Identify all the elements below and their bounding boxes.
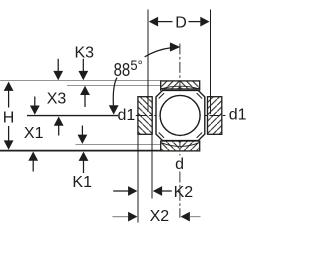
body corner tick bottom-right — [197, 133, 202, 138]
svg-text:88: 88 — [114, 59, 131, 80]
K3 arrow down — [78, 59, 88, 80]
branch axis left segment — [27, 115, 118, 117]
dimension D arrow right — [189, 17, 210, 27]
angle leader arrowhead — [109, 105, 119, 114]
angle arc arrowhead — [170, 42, 180, 51]
fitting body — [156, 90, 205, 140]
svg-text:K2: K2 — [174, 184, 194, 201]
angle arc leader — [145, 48, 171, 57]
left branch socket section — [138, 97, 152, 135]
K1 arrow up — [79, 152, 89, 173]
K2 arrow right — [113, 186, 137, 196]
bore edge stub left — [160, 89, 162, 91]
svg-text:d1: d1 — [118, 107, 136, 124]
svg-text:d1: d1 — [229, 106, 247, 123]
body corner tick top-right — [197, 93, 202, 98]
svg-text:K1: K1 — [72, 174, 92, 191]
top socket pipe section — [161, 81, 200, 89]
X1 arrow down — [30, 97, 40, 115]
svg-text:X1: X1 — [24, 125, 44, 142]
X1 arrow up — [28, 152, 38, 172]
K3 arrow up — [80, 86, 90, 107]
vertical centerline — [179, 44, 181, 218]
body corner tick top-left — [159, 93, 164, 98]
extension line D left — [147, 10, 149, 113]
extension line D right — [209, 10, 211, 115]
svg-text:H: H — [3, 110, 15, 127]
bottom plane line — [0, 150, 161, 152]
bottom socket rim reference line — [76, 143, 161, 145]
X2 arrow right — [112, 212, 137, 222]
svg-text:5°: 5° — [130, 57, 142, 73]
extension line from left socket outer edge — [137, 135, 139, 223]
H arrow down — [4, 126, 14, 150]
K2 arrow left — [153, 186, 172, 196]
X3 arrow down — [53, 59, 63, 80]
svg-text:D: D — [175, 14, 187, 31]
bore edge stub right — [199, 89, 201, 91]
X2 arrow left — [181, 212, 201, 222]
top socket rim reference line — [67, 84, 161, 86]
right branch socket section — [208, 97, 222, 135]
svg-text:X3: X3 — [47, 90, 67, 107]
svg-text:d: d — [175, 156, 184, 173]
body corner tick bottom-left — [159, 133, 164, 138]
top plane reference line — [0, 80, 161, 82]
svg-text:X2: X2 — [150, 208, 170, 225]
angle leader curve to branch axis — [113, 78, 117, 106]
bore circle — [160, 95, 200, 135]
bottom socket pipe section — [161, 141, 200, 151]
svg-text:K3: K3 — [75, 44, 95, 61]
H arrow up — [4, 82, 14, 108]
dimension D arrow left — [149, 17, 173, 27]
K1 arrow down — [78, 126, 88, 144]
X3 arrow up — [54, 117, 64, 136]
extension line from left socket inner edge — [151, 135, 153, 199]
horizontal branch centerline — [136, 115, 228, 117]
